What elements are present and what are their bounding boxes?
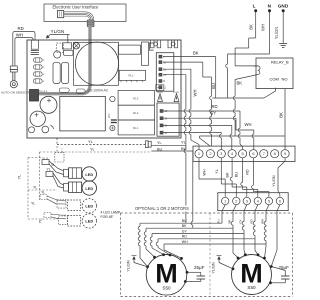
svg-text:8: 8 [274, 151, 276, 156]
label BK L [249, 24, 254, 30]
screw bracket [63, 43, 72, 49]
LED lamp 3 [57, 199, 97, 213]
upper connector CN1 [156, 53, 174, 91]
lower connector CN2 [157, 103, 179, 136]
label CS-10004 AC [88, 89, 109, 93]
svg-text:S50: S50 [162, 286, 171, 291]
transformer [60, 96, 106, 130]
resistor column [34, 58, 45, 83]
bus BU [140, 219, 222, 223]
terminal L [253, 4, 258, 13]
drop T6 YLGN [271, 205, 280, 267]
svg-text:RL1: RL1 [133, 126, 139, 130]
svg-text:YL: YL [88, 139, 94, 144]
wire COM [212, 88, 275, 98]
svg-text:M: M [240, 258, 263, 288]
svg-text:AUTO ON SENSOR: AUTO ON SENSOR [1, 91, 30, 95]
relay coil [253, 66, 260, 75]
label BK coil [237, 81, 243, 86]
svg-text:YL/GN: YL/GN [272, 175, 276, 187]
terminal GND [278, 4, 289, 13]
svg-text:R: R [43, 81, 45, 83]
svg-text:RELAY_B: RELAY_B [271, 60, 289, 65]
big capacitor [75, 42, 118, 85]
svg-text:Electronic User Interface: Electronic User Interface [53, 5, 100, 10]
svg-text:GY: GY [182, 229, 188, 233]
M2 ground arrow [212, 256, 234, 274]
svg-text:RD: RD [18, 26, 24, 31]
svg-text:OPTIONAL:1 OR 2 MOTORS: OPTIONAL:1 OR 2 MOTORS [135, 206, 189, 211]
svg-text:5: 5 [242, 151, 244, 156]
relay RELAY_B [256, 58, 293, 89]
dashed plug box [55, 146, 64, 162]
pcb circles [107, 96, 117, 130]
lamp socket 1 [42, 158, 64, 175]
step BK to M1 [144, 228, 154, 257]
wire RD [13, 32, 35, 67]
electronic user interface box [44, 4, 126, 22]
svg-text:BU: BU [211, 83, 216, 89]
auto-on sensor eye [10, 81, 17, 88]
svg-text:4: 4 [257, 199, 260, 204]
capacitor M2 25uF [271, 265, 290, 283]
wire to T4 [164, 125, 232, 149]
wire BU solid [151, 146, 193, 228]
PCB screw [73, 43, 79, 49]
svg-text:LED: LED [85, 204, 93, 209]
wire YL solid [151, 140, 186, 146]
wire T3-YL [215, 158, 236, 197]
motor M1 terminals [146, 253, 188, 283]
lamp socket 3 [31, 191, 66, 206]
svg-text:YL: YL [33, 186, 37, 190]
vertical component [142, 42, 149, 65]
svg-text:S50: S50 [247, 285, 256, 290]
svg-text:RD: RD [212, 104, 218, 109]
svg-text:L: L [163, 57, 165, 59]
dark connector [30, 89, 48, 101]
svg-text:BU: BU [181, 146, 187, 151]
label RD [212, 104, 218, 109]
svg-text:LED: LED [85, 172, 93, 177]
label GY [210, 111, 216, 116]
bus RD [158, 235, 255, 239]
dashed component [57, 43, 64, 53]
drop T1 BU [222, 205, 225, 224]
svg-text:BK: BK [193, 51, 199, 56]
svg-text:YL: YL [51, 163, 55, 167]
svg-text:WH: WH [203, 169, 207, 176]
capacitor M1 25uF [185, 265, 205, 281]
dashed YL top [40, 148, 151, 153]
svg-text:YL/GN: YL/GN [51, 29, 65, 34]
wire pin2 staircase [163, 62, 212, 146]
lamp socket 4 [39, 213, 67, 224]
svg-text:YL: YL [39, 219, 43, 224]
svg-text:YL/GN: YL/GN [212, 262, 216, 274]
svg-text:S2: S2 [164, 118, 168, 120]
svg-text:NO: NO [282, 76, 288, 81]
svg-text:8-1-1-1: 8-1-1-1 [39, 89, 48, 93]
svg-text:RD: RD [246, 169, 250, 175]
label WH drop [261, 219, 265, 224]
svg-text:WH: WH [16, 33, 23, 38]
wire T5-BU [235, 158, 258, 197]
svg-text:WH: WH [182, 240, 188, 244]
svg-text:GND: GND [278, 4, 289, 9]
PCB relay [31, 40, 38, 49]
label WH [16, 33, 23, 38]
wire WH [15, 38, 33, 66]
LED lamp 1 [64, 167, 97, 181]
small component [64, 50, 74, 55]
svg-text:BU: BU [235, 172, 239, 178]
svg-text:YL/GN: YL/GN [274, 27, 279, 40]
dashed stub [28, 157, 43, 159]
wire RD to T5 [164, 111, 243, 149]
svg-text:1: 1 [198, 151, 200, 156]
svg-text:GY: GY [239, 219, 243, 223]
inline plug [145, 141, 151, 148]
svg-text:25μF: 25μF [279, 265, 290, 270]
svg-text:YL: YL [181, 140, 187, 145]
svg-text:BU: BU [157, 147, 162, 151]
wire pin4 YL bus [163, 75, 186, 224]
svg-text:WH: WH [260, 24, 265, 31]
drop T4 RD [253, 205, 258, 255]
svg-text:2: 2 [209, 151, 211, 156]
warning triangles [157, 92, 179, 102]
step RD to M1 [156, 239, 170, 255]
svg-text:WH: WH [193, 90, 198, 97]
svg-text:YL: YL [18, 175, 22, 180]
LED lamp 4 [59, 214, 97, 228]
M1 ground arrow [127, 256, 148, 272]
wire L to relay coil [235, 12, 258, 66]
svg-text:YL: YL [215, 169, 219, 174]
dashed h row4 [28, 218, 58, 220]
svg-text:BK: BK [278, 112, 283, 118]
PCB bars [31, 51, 39, 55]
bus BK [146, 224, 233, 228]
svg-text:M: M [163, 81, 165, 83]
svg-text:YL: YL [31, 202, 35, 206]
svg-text:BU: BU [217, 219, 221, 223]
svg-text:FOR 48": FOR 48" [101, 215, 115, 219]
motor M2 S50 [232, 255, 272, 295]
terminal strip TB2 [218, 193, 288, 211]
svg-text:7: 7 [263, 151, 265, 156]
solder pads [59, 88, 85, 93]
svg-text:LED: LED [85, 219, 93, 224]
drop T5 WH [264, 205, 269, 258]
svg-text:YL/GN: YL/GN [127, 260, 131, 272]
label BK drop [228, 219, 232, 223]
big cap box [74, 42, 119, 85]
sensor stem [13, 72, 15, 81]
svg-text:N: N [268, 4, 272, 9]
svg-text:WH: WH [245, 122, 252, 127]
label RD [18, 26, 24, 31]
wire pin3 to T1 [163, 69, 199, 149]
svg-text:L: L [253, 4, 256, 9]
svg-text:BK: BK [228, 219, 232, 223]
label OPTIONAL 1 OR 2 MOTORS [134, 206, 189, 212]
slant NO to T2 [200, 136, 211, 146]
drop T2 BK [231, 205, 238, 258]
svg-text:RL3: RL3 [133, 96, 139, 100]
wire GY to T6 [164, 118, 254, 149]
svg-text:25V: 25V [107, 113, 111, 118]
drop T3 GY [242, 205, 247, 255]
svg-text:GY: GY [210, 111, 216, 116]
label WH vert [193, 90, 198, 97]
svg-text:R: R [43, 74, 45, 76]
ground symbol [279, 12, 287, 48]
svg-text:BK: BK [226, 172, 230, 178]
svg-text:COM: COM [270, 77, 279, 82]
svg-text:RL2: RL2 [133, 111, 139, 115]
label AUTO ON SENSOR [1, 91, 30, 95]
optional motors dashed box [121, 213, 293, 297]
svg-text:YL: YL [41, 191, 45, 195]
wire NO [200, 89, 286, 150]
svg-text:4 LED LAMP: 4 LED LAMP [101, 211, 121, 215]
label BU vert [211, 83, 216, 89]
relay column RL1-3 [118, 90, 154, 134]
terminal N [268, 4, 272, 13]
label BU drop [217, 219, 221, 223]
svg-text:4: 4 [231, 151, 234, 156]
svg-text:S1: S1 [164, 111, 168, 113]
svg-text:RD: RD [250, 219, 254, 224]
svg-text:YL: YL [157, 141, 162, 145]
svg-text:5: 5 [268, 199, 270, 204]
fuse clips [151, 40, 178, 48]
svg-text:C1: C1 [163, 69, 167, 71]
label BK NO [278, 112, 283, 118]
wire T6-RD [246, 158, 269, 197]
motor M2 terminals [232, 253, 273, 284]
svg-text:3: 3 [246, 199, 248, 204]
terminal strip TB1 [193, 146, 295, 161]
svg-text:YL: YL [47, 168, 51, 172]
wire T1-WH [199, 158, 225, 197]
svg-text:9: 9 [284, 151, 286, 156]
svg-text:2: 2 [235, 199, 237, 204]
lamp socket 2 [18, 168, 64, 189]
label YL/GN arrow [46, 29, 69, 42]
wire N [226, 12, 270, 98]
svg-text:3: 3 [220, 151, 222, 156]
small circles [29, 126, 54, 133]
gnd box [156, 85, 164, 90]
svg-text:HIGH: HIGH [157, 92, 163, 94]
wire T9 YLGN [272, 158, 285, 197]
svg-text:R: R [43, 67, 45, 69]
label RD drop [250, 219, 254, 224]
dashed vert 1 [27, 158, 29, 220]
svg-text:BK: BK [182, 224, 187, 228]
motor M1 S50 [146, 254, 187, 295]
svg-text:BK: BK [249, 24, 254, 30]
svg-text:C2: C2 [163, 75, 167, 77]
film capacitors [53, 62, 69, 83]
interface ribbon cable [58, 11, 94, 20]
relay RL1 [119, 70, 145, 82]
svg-text:M: M [155, 259, 178, 289]
svg-text:L1: L1 [163, 87, 166, 89]
dashed h row3 [28, 186, 57, 191]
wire coil BK [233, 75, 257, 137]
label 4 LED LAMP [101, 211, 121, 220]
svg-text:HIGH: HIGH [174, 92, 180, 94]
svg-text:S3: S3 [164, 126, 168, 128]
label WH mid [245, 122, 252, 127]
cap C1 [40, 96, 57, 113]
svg-text:R: R [43, 60, 45, 62]
wire pin1 BK [163, 51, 216, 98]
grey ribbon cable [39, 25, 91, 94]
dashed vert 2 [39, 152, 41, 200]
svg-text:BU: BU [182, 219, 187, 223]
cap C2 [30, 111, 45, 126]
svg-text:RD: RD [182, 235, 188, 239]
step GY to M1 [150, 234, 163, 255]
label GY drop [239, 219, 243, 223]
wire to T3 [164, 133, 222, 150]
step BU to M1 [138, 223, 147, 266]
dashed YL wire [57, 138, 146, 145]
svg-text:WH: WH [261, 219, 265, 224]
svg-text:CS-10004 AC: CS-10004 AC [88, 89, 109, 93]
label WH N [260, 24, 265, 31]
svg-text:6: 6 [279, 199, 281, 204]
svg-text:RL1: RL1 [129, 74, 135, 78]
inductor box [118, 45, 140, 54]
small circle component [54, 51, 61, 58]
PCB board outline [27, 40, 181, 138]
svg-text:BK: BK [237, 81, 243, 86]
svg-text:1: 1 [224, 199, 226, 204]
svg-text:6: 6 [252, 151, 254, 156]
bus WH [164, 240, 266, 244]
svg-text:S4: S4 [164, 133, 168, 135]
LED lamp 2 [64, 181, 97, 195]
bracket component [150, 43, 154, 50]
svg-text:N1: N1 [163, 62, 167, 64]
sensor connector [10, 66, 17, 72]
bus GY [152, 229, 244, 233]
step WH to M1 [164, 244, 182, 258]
svg-text:25μF: 25μF [194, 265, 205, 270]
wire T4-BK [226, 158, 247, 197]
interface cable plug [87, 20, 94, 27]
svg-text:YL: YL [90, 148, 95, 152]
label YL/GN gnd [274, 27, 279, 40]
svg-text:LED: LED [85, 186, 93, 191]
